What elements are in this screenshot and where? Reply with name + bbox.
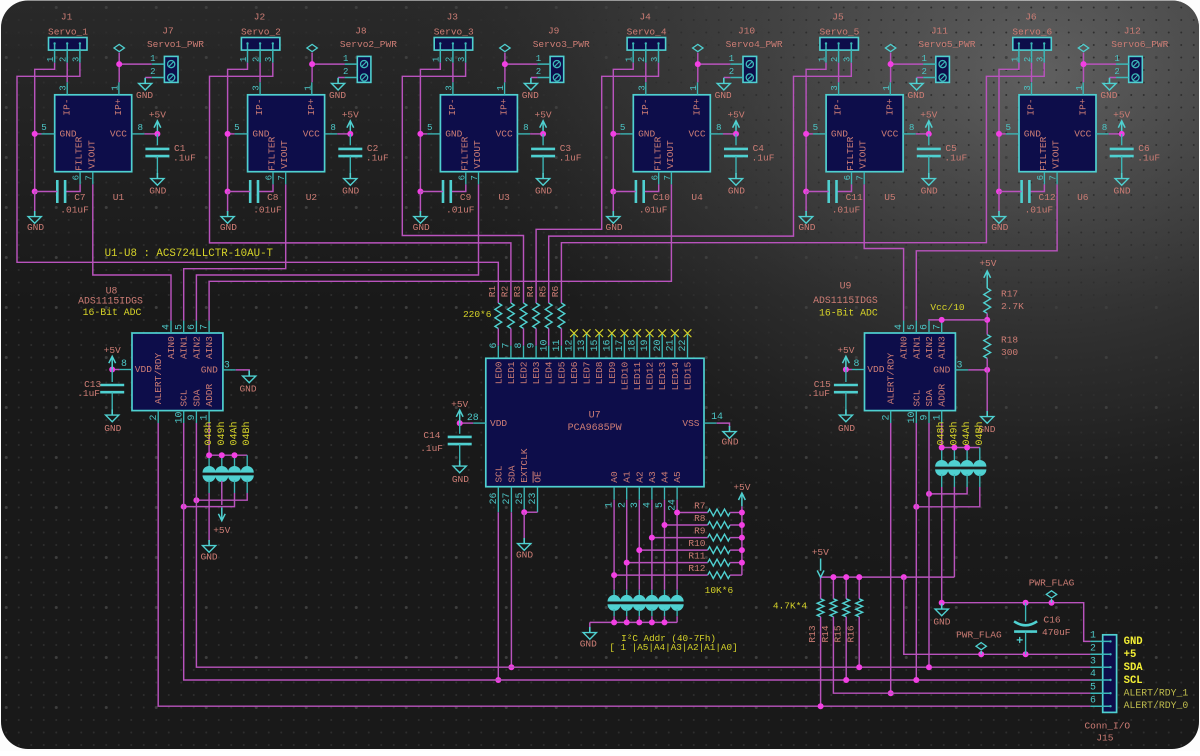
svg-text:.1uF: .1uF (77, 388, 100, 399)
wire J7 pin2 to ground (145, 77, 152, 79)
svg-text:6: 6 (649, 175, 660, 181)
U7 VSS pin stub (704, 422, 717, 424)
wire +5V to C1 (156, 134, 158, 145)
power flag stem ch4 (697, 53, 699, 65)
svg-text:GND: GND (149, 185, 166, 196)
svg-text:6: 6 (264, 175, 275, 181)
U7 VDD pin stub (473, 422, 486, 424)
pins U3 (427, 82, 530, 184)
junction U7 SDA bus (508, 664, 514, 670)
pin numbers U4 (620, 85, 722, 181)
solder jumper A5 (671, 595, 684, 611)
svg-text:2: 2 (880, 414, 891, 420)
svg-text:3: 3 (1022, 85, 1033, 91)
wire ADDR to jumper row U8 (208, 423, 210, 455)
svg-text:Servo_1: Servo_1 (48, 26, 88, 37)
+5V symbol U8 (109, 356, 116, 369)
resistor R4 (533, 303, 540, 329)
wire VCC U1 to +5V (144, 133, 157, 135)
svg-text:6: 6 (919, 324, 930, 330)
svg-text:12: 12 (564, 340, 575, 352)
current sensor U3 ACS724 (440, 95, 517, 172)
wire U3 GND pin to rail (420, 133, 427, 135)
pin numbers J12 (1114, 54, 1119, 77)
svg-text:U3: U3 (498, 192, 510, 203)
ground symbol U8 (243, 371, 256, 383)
junction servo power ch1 (116, 61, 122, 67)
connector J11 (Servo5_PWR) (923, 56, 949, 82)
svg-text:3: 3 (843, 57, 853, 62)
svg-text:ALERT/RDY_0: ALERT/RDY_0 (1124, 700, 1189, 711)
label R17 (1001, 289, 1024, 313)
solder jumper U8 2 (215, 466, 228, 482)
wire J2 pin1 to GND rail (228, 63, 248, 192)
wire U8 GND pin to ground (236, 370, 250, 371)
U7 top pin stubs LED0-LED15 (498, 333, 687, 358)
wire +5V rail to R14 (832, 577, 834, 599)
junction GND rail pin5 ch6 (996, 131, 1002, 137)
svg-text:8: 8 (523, 122, 529, 133)
junction A1 R11 (624, 560, 630, 566)
svg-text:VCC: VCC (688, 129, 705, 140)
svg-text:2: 2 (150, 67, 155, 77)
svg-text:SCL: SCL (1124, 675, 1143, 687)
svg-text:5: 5 (427, 122, 433, 133)
wire U7 SCL to bus (497, 512, 499, 680)
svg-text:4: 4 (161, 324, 172, 330)
+5V symbol R7-R12 (739, 493, 746, 506)
svg-text:5: 5 (1006, 122, 1012, 133)
svg-text:U7: U7 (589, 410, 601, 421)
junction C16 positive (1023, 651, 1029, 657)
wire J5 pin2 to IP- (838, 63, 840, 82)
wire +5V to C14 (459, 423, 461, 434)
wire R12 to +5V rail (730, 574, 742, 576)
U8 top pin numbers (161, 324, 210, 330)
U7 A pin numbers (604, 499, 678, 511)
label C6 (1137, 143, 1160, 163)
wire U9 jumper3 to SDA (929, 487, 967, 494)
svg-text:AIN2: AIN2 (191, 336, 202, 359)
power flag stem ch6 (1083, 53, 1085, 65)
junction A4 R8 (662, 522, 668, 528)
resistor R3 (520, 303, 527, 329)
ground symbol U7 VSS (723, 426, 736, 438)
ground symbol ch4 (607, 211, 620, 223)
svg-text:.1uF: .1uF (807, 388, 830, 399)
svg-text:ALERT/RDY_1: ALERT/RDY_1 (1124, 687, 1189, 698)
wire J2 pin3 signal to R2 (210, 63, 511, 303)
ground symbol ground bus (935, 604, 948, 616)
connector J15 (Conn_I/O) (1090, 635, 1116, 713)
svg-text:Servo_2: Servo_2 (241, 26, 281, 37)
svg-text:PWR_FLAG: PWR_FLAG (1029, 577, 1075, 588)
svg-text:2: 2 (830, 57, 840, 62)
wire J1 pin1 to GND rail (35, 63, 55, 192)
junction jumper A4 ground tie (662, 619, 668, 625)
wire VIOUT U5 to ADC (864, 184, 903, 320)
wire J3 pin1 to GND rail (420, 63, 440, 192)
svg-text:VCC: VCC (110, 129, 127, 140)
label C10 (639, 192, 670, 216)
svg-text:AIN0: AIN0 (166, 336, 177, 359)
junction jumper A3 ground tie (649, 619, 655, 625)
svg-text:FILTER: FILTER (845, 136, 856, 171)
U8 bottom pin labels (179, 384, 215, 407)
ground symbol OE (518, 538, 531, 550)
svg-text:GND: GND (136, 90, 153, 101)
svg-text:SDA: SDA (924, 389, 935, 406)
svg-text:VIOUT: VIOUT (858, 140, 869, 169)
svg-text:IP-: IP- (1026, 98, 1037, 115)
svg-text:SDA: SDA (506, 465, 517, 482)
svg-text:04Bh: 04Bh (974, 421, 986, 445)
junction +5V rail (843, 574, 849, 580)
svg-text:2: 2 (59, 57, 69, 62)
svg-text:.01uF: .01uF (832, 205, 861, 216)
resistor R5 (545, 303, 552, 329)
current sensor U5 ACS724 (826, 95, 903, 172)
pin numbers J8 (343, 54, 348, 77)
wire U8 jumper2 to +5V (221, 481, 223, 505)
svg-text:J1: J1 (61, 12, 73, 23)
junction servo power ch4 (695, 61, 701, 67)
capacitor C15 (834, 385, 858, 392)
wire A0 to jumper (613, 500, 615, 590)
junction U9 jumper3 (964, 445, 970, 451)
svg-text:VCC: VCC (1074, 129, 1091, 140)
power flag stem ch1 (118, 53, 120, 65)
svg-text:VIOUT: VIOUT (279, 140, 290, 169)
svg-text:8: 8 (854, 358, 860, 369)
junction GND rail pin5 ch5 (803, 131, 809, 137)
wire U8 jumper tie (209, 454, 247, 456)
svg-text:16-Bit ADC: 16-Bit ADC (819, 308, 878, 319)
wire A4 to jumper (664, 500, 666, 590)
solder jumper U9 2 (948, 460, 961, 476)
wire A4 to R8 (665, 524, 708, 526)
svg-text:4: 4 (893, 324, 904, 330)
svg-text:FILTER: FILTER (74, 136, 85, 171)
wire J2 pin2 to IP- (259, 63, 261, 82)
svg-text:4.7K*4: 4.7K*4 (773, 601, 808, 612)
svg-text:.01uF: .01uF (253, 205, 282, 216)
junction U9 jumper1 (939, 445, 945, 451)
svg-text:27: 27 (501, 493, 512, 505)
svg-text:5: 5 (234, 122, 240, 133)
svg-text:A2: A2 (634, 471, 645, 483)
svg-text:2.7K: 2.7K (1001, 301, 1024, 312)
junction U7 SCL bus (495, 677, 501, 683)
label C7 (60, 192, 89, 216)
svg-text:AIN2: AIN2 (924, 336, 935, 359)
wire U9 jumper tie (942, 447, 980, 449)
capacitor C8 (250, 180, 258, 203)
svg-text:+5V: +5V (1113, 110, 1130, 121)
wire J10 pin1 to IP+ (698, 64, 731, 82)
junction servo power ch5 (888, 61, 894, 67)
svg-text:.1uF: .1uF (420, 443, 443, 454)
wire VCC U3 to +5V (530, 133, 543, 135)
svg-text:LED6: LED6 (569, 361, 580, 384)
junction A5 R7 (674, 510, 680, 516)
label C16 (1042, 615, 1071, 638)
svg-text:GND: GND (516, 550, 533, 561)
ground symbol C14 (453, 461, 466, 473)
wire FILTER to C9 (451, 184, 466, 191)
svg-text:3: 3 (71, 57, 81, 62)
wire J8 pin2 to ground (338, 77, 345, 79)
pin numbers U1 (41, 85, 143, 181)
junction jumper A2 ground tie (636, 619, 642, 625)
svg-text:2: 2 (536, 67, 541, 77)
ground symbol C6 (1115, 173, 1128, 185)
svg-text:LED0: LED0 (493, 361, 504, 384)
capacitor C9 (443, 180, 451, 203)
svg-text:VIOUT: VIOUT (86, 140, 97, 169)
wire U8 SCL to SCL bus (184, 423, 1091, 680)
wire jumper bottoms to ground tie (590, 621, 677, 623)
junction A2 R10 (636, 547, 642, 553)
power flag PWR_FLAG +5 (976, 643, 986, 655)
resistor R12 (708, 572, 730, 579)
label C9 (446, 192, 475, 216)
power flag stem ch2 (311, 53, 313, 65)
wire J9 pin2 to ground (531, 77, 538, 79)
svg-text:5: 5 (1090, 681, 1096, 692)
label C4 (752, 143, 775, 163)
svg-text:A1: A1 (622, 471, 633, 483)
svg-text:1: 1 (1090, 630, 1096, 641)
ground symbol U8 jumper1 (203, 540, 216, 552)
wire GND rail to ground ch5 (805, 192, 807, 213)
svg-text:R4: R4 (525, 286, 536, 298)
U7 A pin labels (609, 471, 683, 483)
svg-text:4: 4 (642, 502, 653, 508)
svg-text:1: 1 (817, 57, 827, 62)
svg-text:6: 6 (488, 342, 499, 348)
svg-text:VIOUT: VIOUT (1051, 140, 1062, 169)
pin numbers J2 (239, 57, 274, 62)
ground symbol C5 (922, 173, 935, 185)
solder jumper A1 (620, 595, 633, 611)
svg-text:Servo_6: Servo_6 (1012, 26, 1052, 37)
ground symbol J9 (524, 78, 537, 90)
U7 LED pin labels (493, 361, 693, 390)
svg-text:5: 5 (813, 122, 819, 133)
svg-text:3: 3 (629, 502, 640, 508)
wire divider to ground (986, 370, 988, 413)
solder jumper A3 (645, 595, 658, 611)
svg-text:5: 5 (620, 122, 626, 133)
power flag ch4 (693, 44, 703, 51)
connector J9 (Servo3_PWR) (537, 56, 563, 82)
svg-text:Servo5_PWR: Servo5_PWR (918, 39, 975, 50)
svg-text:5: 5 (654, 502, 665, 508)
ADC U8 ADS1115IDGS (132, 333, 223, 411)
svg-text:3: 3 (251, 85, 262, 91)
svg-text:SCL: SCL (493, 465, 504, 482)
svg-text:2: 2 (921, 67, 926, 77)
junction +5V feed (901, 574, 907, 580)
svg-text:+5V: +5V (920, 110, 937, 121)
no-connect LED7 (583, 329, 591, 337)
svg-text:11: 11 (551, 340, 562, 352)
no-connect LED14 (671, 329, 679, 337)
svg-text:26: 26 (488, 493, 499, 505)
wire J6 pin1 to GND rail (999, 63, 1019, 192)
svg-text:GND: GND (239, 384, 256, 395)
U8 bottom pin stubs (158, 411, 209, 423)
svg-text:C7: C7 (74, 192, 85, 203)
label C5 (944, 143, 967, 163)
junction AIN3 tap (939, 317, 945, 323)
resistor R16 (856, 599, 863, 617)
svg-text:VIOUT: VIOUT (472, 140, 483, 169)
svg-text:LED13: LED13 (657, 362, 668, 391)
svg-text:AIN3: AIN3 (204, 336, 215, 359)
junction OE EXTCLK (521, 509, 527, 515)
svg-text:R3: R3 (512, 286, 523, 298)
junction servo power ch6 (1081, 61, 1087, 67)
svg-text:18: 18 (627, 340, 638, 352)
svg-text:8: 8 (121, 358, 127, 369)
wire EXTCLK to ground (523, 512, 525, 539)
no-connect LED6 (570, 329, 578, 337)
svg-text:J2: J2 (254, 12, 266, 23)
junction servo power ch2 (309, 61, 315, 67)
wire GND rail to ground ch3 (419, 192, 421, 213)
pin labels U1 (60, 98, 128, 171)
wire C10 to GND rail (613, 191, 636, 193)
label C11 (832, 192, 863, 216)
pin numbers J9 (536, 54, 541, 77)
svg-text:8: 8 (1102, 122, 1108, 133)
svg-text:1: 1 (432, 57, 442, 62)
svg-text:ADS1115IDGS: ADS1115IDGS (813, 295, 878, 306)
wire FILTER to C12 (1029, 184, 1044, 191)
svg-text:LED3: LED3 (531, 361, 542, 384)
wire U2 GND pin to rail (228, 133, 235, 135)
svg-text:+5V: +5V (342, 110, 359, 121)
svg-text:J7: J7 (162, 26, 173, 37)
svg-text:C14: C14 (423, 430, 440, 441)
capacitor C10 (636, 180, 644, 203)
svg-text:.01uF: .01uF (60, 205, 89, 216)
power flag ch2 (307, 44, 317, 51)
resistor R15 (843, 599, 850, 617)
svg-text:16: 16 (601, 340, 612, 352)
svg-text:IP-: IP- (640, 98, 651, 115)
svg-text:+5V: +5V (733, 482, 750, 493)
svg-text:SCL: SCL (911, 389, 922, 406)
svg-text:R18: R18 (1001, 335, 1018, 346)
svg-text:SDA: SDA (1124, 662, 1144, 674)
svg-text:FILTER: FILTER (267, 136, 278, 171)
solder jumper U8 4 (241, 466, 254, 482)
wire J4 pin1 to GND rail (613, 63, 633, 192)
svg-text:LED15: LED15 (683, 362, 694, 391)
wire C2 to ground (349, 156, 351, 173)
capacitor C12 (1022, 180, 1030, 203)
+5V symbol U9 (843, 356, 850, 369)
jumper A5 top stub (676, 590, 678, 597)
wire R4 to LED3 (535, 329, 537, 346)
wire +5V rail to R15 (845, 577, 847, 599)
svg-text:16-Bit ADC: 16-Bit ADC (83, 307, 142, 318)
U7 bottom left pin labels (493, 448, 543, 483)
current sensor U4 ACS724 (633, 95, 710, 172)
junction +5V rail (830, 574, 836, 580)
wire C7 to GND rail (35, 191, 58, 193)
svg-text:048h: 048h (936, 421, 948, 445)
wire J11 pin2 to ground (917, 77, 924, 79)
svg-text:17: 17 (614, 340, 625, 352)
svg-text:LED12: LED12 (645, 362, 656, 391)
svg-text:A3: A3 (647, 471, 658, 483)
svg-text:1: 1 (302, 85, 313, 91)
labels U9 jumper addresses (936, 421, 986, 445)
wire J12 pin2 to ground (1110, 77, 1117, 79)
ground symbol ch1 (28, 211, 41, 223)
wire C8 to GND rail (228, 191, 251, 193)
wire C16 bottom lead (1025, 632, 1027, 655)
wire +5V to C6 (1121, 134, 1123, 145)
svg-text:R16: R16 (846, 625, 857, 642)
current sensor U2 ACS724 (248, 95, 325, 172)
svg-text:+5V: +5V (727, 110, 744, 121)
U8 bottom pin numbers (148, 412, 210, 424)
wire ADDR to jumper row U9 (941, 423, 943, 448)
svg-text:ADS1115IDGS: ADS1115IDGS (78, 295, 143, 306)
wire J6 pin2 to IP- (1031, 63, 1033, 82)
svg-text:IP+: IP+ (884, 98, 895, 115)
svg-text:J11: J11 (931, 26, 948, 37)
jumper A3 top stub (651, 590, 653, 597)
svg-text:8: 8 (909, 122, 915, 133)
ground symbol C4 (729, 173, 742, 185)
wire U9 ALERT/RDY to bus (890, 423, 892, 693)
svg-text:1: 1 (604, 502, 615, 508)
svg-text:1: 1 (931, 414, 942, 420)
svg-text:5: 5 (173, 324, 184, 330)
svg-text:J3: J3 (447, 12, 459, 23)
svg-text:6: 6 (1090, 694, 1096, 705)
svg-text:1: 1 (495, 85, 506, 91)
svg-text:3: 3 (443, 85, 454, 91)
svg-text:IP+: IP+ (692, 98, 703, 115)
svg-text:GND: GND (907, 90, 924, 101)
wire U8 jumper4 to SDA (196, 493, 247, 500)
svg-text:3: 3 (457, 57, 467, 62)
svg-text:GND: GND (201, 552, 218, 563)
svg-text:14: 14 (711, 411, 723, 422)
U7 A0-A5 pin stubs (614, 487, 677, 500)
svg-text:7: 7 (276, 175, 287, 181)
power flag ch5 (885, 44, 895, 51)
U7 bottom left pin numbers (488, 493, 538, 505)
wire R14 to ALERT/RDY_1 bus (833, 617, 1090, 693)
wire C11 to GND rail (806, 191, 829, 193)
ADC U9 ADS1115IDGS (865, 333, 956, 411)
PWM controller U7 PCA9685PW (486, 358, 704, 486)
solder jumper A0 (608, 595, 621, 611)
svg-text:LED7: LED7 (582, 361, 593, 384)
pin numbers U3 (427, 85, 529, 181)
U9 top pin numbers (893, 324, 942, 330)
wire Vcc/10 to AIN2 (929, 319, 987, 322)
svg-text:GND: GND (329, 90, 346, 101)
